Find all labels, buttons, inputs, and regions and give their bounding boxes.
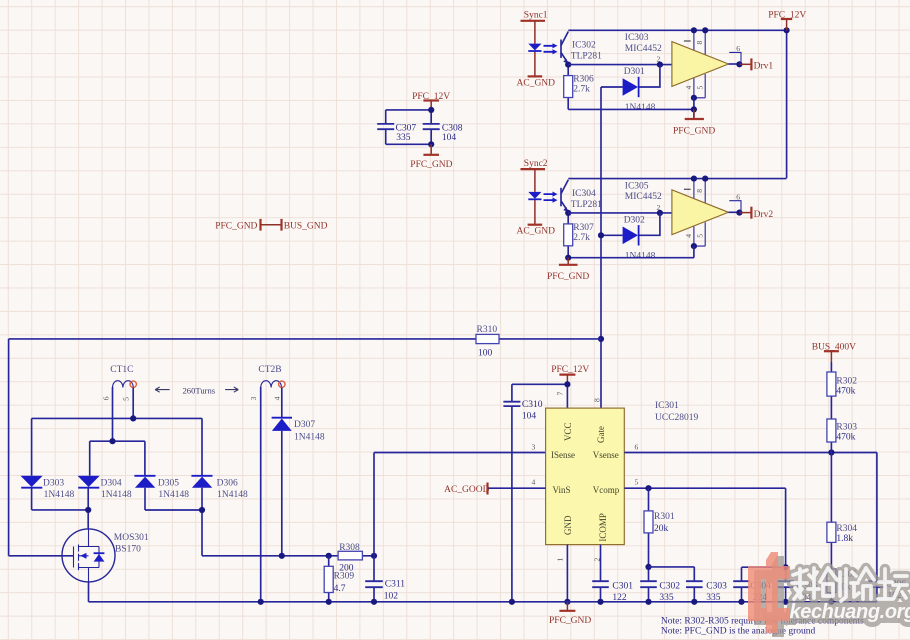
svg-text:D306: D306 [217, 479, 238, 489]
svg-text:IC305: IC305 [625, 181, 649, 191]
svg-text:MOS301: MOS301 [114, 533, 149, 543]
svg-text:5: 5 [635, 478, 639, 487]
svg-text:IC303: IC303 [625, 33, 649, 43]
svg-text:D305: D305 [158, 479, 179, 489]
svg-text:CT2B: CT2B [258, 365, 281, 375]
svg-text:VinS: VinS [553, 485, 571, 495]
svg-text:1: 1 [555, 558, 564, 562]
svg-text:260Turns: 260Turns [183, 386, 216, 396]
svg-text:C308: C308 [442, 124, 463, 134]
svg-text:5: 5 [122, 397, 131, 401]
svg-text:IC302: IC302 [572, 41, 596, 51]
svg-text:1N4148: 1N4148 [217, 490, 248, 500]
svg-text:104: 104 [522, 412, 537, 422]
svg-text:D307: D307 [294, 420, 315, 430]
svg-text:6: 6 [101, 396, 110, 400]
svg-text:CT1C: CT1C [110, 365, 133, 375]
svg-text:D304: D304 [101, 479, 122, 489]
svg-text:C310: C310 [522, 400, 543, 410]
svg-text:1.8k: 1.8k [836, 534, 853, 544]
svg-text:1N4148: 1N4148 [101, 490, 132, 500]
svg-text:Sync2: Sync2 [524, 159, 548, 169]
svg-text:8: 8 [593, 398, 602, 402]
svg-text:kechuang.org: kechuang.org [790, 601, 910, 623]
svg-text:Note: PFC_GND is the analogue: Note: PFC_GND is the analogue ground [661, 626, 816, 636]
svg-text:C303: C303 [706, 582, 727, 592]
svg-text:C311: C311 [385, 579, 405, 589]
svg-text:PFC_12V: PFC_12V [551, 365, 589, 375]
svg-text:7: 7 [555, 392, 564, 396]
svg-text:20k: 20k [654, 524, 669, 534]
svg-text:Vcomp: Vcomp [593, 485, 620, 495]
svg-text:4: 4 [273, 396, 282, 400]
svg-text:Vsense: Vsense [593, 450, 619, 460]
svg-text:3: 3 [249, 396, 258, 400]
svg-text:PFC_GND: PFC_GND [410, 160, 452, 170]
svg-text:100: 100 [478, 349, 493, 359]
svg-text:R303: R303 [836, 422, 857, 432]
svg-text:R310: R310 [477, 325, 498, 335]
svg-text:R307: R307 [573, 223, 594, 233]
svg-text:UCC28019: UCC28019 [655, 413, 699, 423]
svg-text:D303: D303 [43, 479, 64, 489]
svg-text:C301: C301 [612, 582, 633, 592]
svg-text:C307: C307 [396, 124, 417, 134]
svg-text:R304: R304 [836, 524, 857, 534]
svg-text:PFC_GND: PFC_GND [673, 127, 715, 137]
svg-text:IC301: IC301 [655, 401, 679, 411]
svg-text:BUS_GND: BUS_GND [284, 221, 328, 231]
svg-text:R309: R309 [334, 572, 355, 582]
svg-text:1N4148: 1N4148 [44, 490, 75, 500]
svg-text:D301: D301 [624, 67, 645, 77]
svg-text:6: 6 [635, 443, 639, 452]
svg-text:470k: 470k [836, 432, 855, 442]
svg-text:R301: R301 [654, 512, 675, 522]
svg-text:ICOMP: ICOMP [598, 513, 608, 542]
svg-text:D302: D302 [624, 215, 645, 225]
svg-text:1N4148: 1N4148 [294, 433, 325, 443]
svg-text:335: 335 [396, 133, 411, 143]
svg-text:IC304: IC304 [572, 189, 596, 199]
svg-text:PFC_GND: PFC_GND [215, 221, 257, 231]
svg-text:AC_GOOD: AC_GOOD [444, 485, 490, 495]
svg-text:104: 104 [442, 133, 457, 143]
svg-text:Gate: Gate [596, 426, 606, 443]
svg-text:R302: R302 [836, 376, 857, 386]
svg-text:R308: R308 [339, 543, 360, 553]
svg-text:VCC: VCC [563, 422, 573, 441]
svg-text:R306: R306 [573, 75, 594, 85]
svg-text:Drv2: Drv2 [754, 210, 774, 220]
svg-text:470k: 470k [836, 386, 855, 396]
svg-text:Drv1: Drv1 [754, 62, 774, 72]
svg-text:102: 102 [384, 591, 399, 601]
svg-text:GND: GND [563, 515, 573, 535]
svg-text:BS170: BS170 [115, 545, 141, 555]
svg-text:3: 3 [532, 443, 536, 452]
svg-text:PFC_GND: PFC_GND [547, 272, 589, 282]
svg-text:C302: C302 [659, 582, 680, 592]
svg-text:1N4148: 1N4148 [158, 490, 189, 500]
svg-text:4: 4 [532, 478, 536, 487]
svg-text:Sync1: Sync1 [524, 11, 548, 21]
svg-text:PFC_GND: PFC_GND [549, 616, 591, 626]
svg-text:ISense: ISense [551, 450, 575, 460]
svg-text:4.7: 4.7 [334, 584, 346, 594]
